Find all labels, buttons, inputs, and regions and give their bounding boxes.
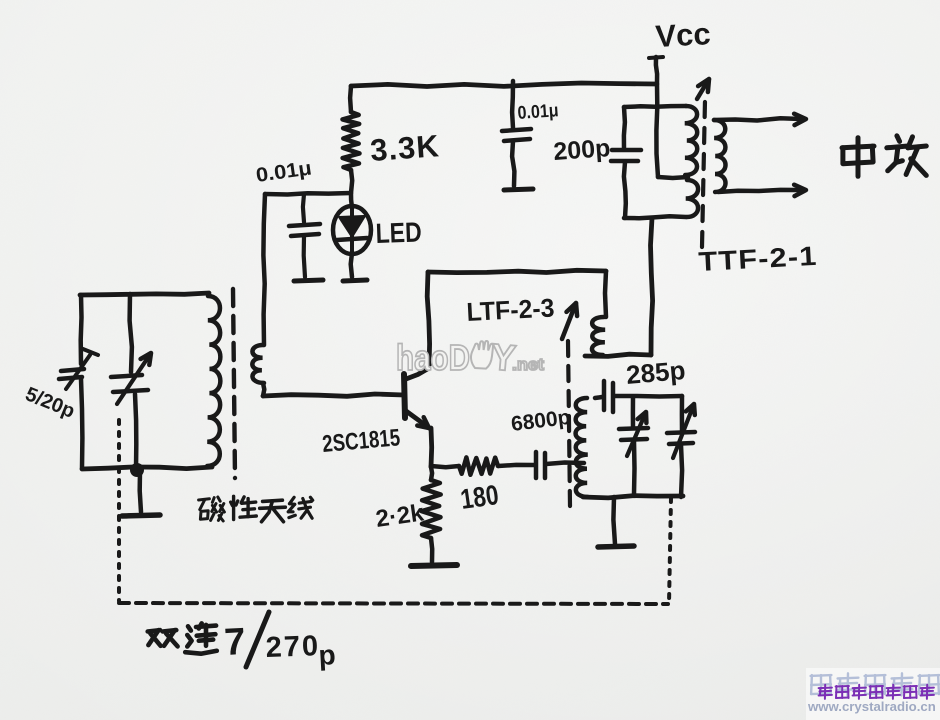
capacitor 0.01u decoupling bbox=[502, 81, 533, 190]
svg-text:TTF-2-1: TTF-2-1 bbox=[698, 241, 818, 277]
ground oscillator bbox=[598, 497, 634, 547]
transistor Q1 2SC1815 bbox=[404, 272, 432, 467]
capacitor series osc bbox=[595, 381, 682, 412]
svg-text:.net: .net bbox=[512, 355, 544, 374]
resistor 2.2k bbox=[422, 467, 441, 562]
watermark crystalradio bbox=[806, 668, 940, 720]
variable capacitor tuning main bbox=[111, 294, 151, 470]
wire tank bottom bbox=[82, 467, 212, 469]
inductor antenna secondary bbox=[252, 194, 265, 396]
node tank junction bbox=[130, 463, 144, 477]
label 200p value bbox=[552, 134, 611, 166]
label LED bbox=[375, 216, 422, 249]
Vcc power label bbox=[655, 16, 712, 54]
label 0.01u left bbox=[255, 157, 314, 187]
inductor antenna coil bbox=[207, 296, 220, 466]
svg-text:LED: LED bbox=[375, 216, 422, 249]
inductor TTF-2-1 secondary bbox=[714, 120, 726, 192]
wire output bottom arrow bbox=[718, 185, 806, 196]
label 5/20p bbox=[22, 383, 78, 423]
svg-text:haoD: haoD bbox=[396, 337, 470, 378]
ground tank bbox=[122, 471, 160, 516]
label 180 bbox=[459, 479, 501, 515]
Vcc supply wire bbox=[649, 57, 663, 177]
svg-text:LTF-2-3: LTF-2-3 bbox=[466, 292, 555, 327]
capacitor 0.01u input bbox=[289, 194, 323, 281]
resistor R 3.3K bbox=[343, 86, 360, 193]
gang link left dotted bbox=[117, 420, 121, 601]
svg-text:p: p bbox=[318, 639, 337, 671]
wire osc tank right bbox=[680, 396, 685, 432]
label LTF-2-3 bbox=[466, 292, 555, 327]
wire osc tank bottom bbox=[583, 496, 683, 498]
wire top rail bbox=[351, 83, 656, 87]
wire TTF bottom to LTF bbox=[585, 218, 653, 356]
variable capacitor osc main bbox=[667, 404, 695, 497]
wire LED branch top bbox=[265, 193, 351, 195]
svg-text:7: 7 bbox=[223, 621, 246, 664]
antenna ferrite core dashed bbox=[233, 289, 235, 478]
label 285p bbox=[625, 355, 687, 390]
inductor TTF-2-1 primary bbox=[658, 106, 698, 217]
capacitor 6800p bbox=[536, 452, 584, 478]
label 2SC1815 bbox=[321, 424, 401, 458]
variable capacitor osc trim bbox=[619, 397, 648, 494]
wire base bbox=[263, 394, 404, 396]
resistor 180 emitter bbox=[431, 457, 534, 474]
label 0.01u top bbox=[517, 99, 559, 123]
LTF-2-3 outline bbox=[428, 270, 606, 317]
svg-text:0.01μ: 0.01μ bbox=[517, 99, 559, 123]
LTF-2-3 tuning core dashed bbox=[562, 303, 577, 506]
svg-text:200p: 200p bbox=[552, 134, 611, 166]
label dual gang 双连 7/270p bbox=[148, 612, 337, 671]
wire tank top bbox=[80, 293, 209, 295]
gang link bottom dashed bbox=[119, 603, 668, 604]
ground emitter bbox=[411, 565, 457, 566]
label 6800p bbox=[510, 406, 572, 436]
svg-text:Vcc: Vcc bbox=[655, 16, 712, 54]
capacitor 200p tank bbox=[611, 106, 686, 218]
svg-text:285p: 285p bbox=[625, 355, 687, 390]
LED indicator bbox=[333, 194, 371, 281]
label TTF-2-1 bbox=[698, 241, 818, 277]
TTF-2-1 tuning core dashed bbox=[697, 79, 709, 247]
gang link right dotted bbox=[669, 498, 671, 604]
inductor LTF-2-3 secondary bbox=[592, 317, 605, 355]
wire tank left bbox=[78, 295, 83, 364]
wire output top arrow bbox=[714, 114, 806, 125]
trimmer capacitor 5/20p bbox=[59, 349, 98, 468]
label IF out 中放 bbox=[842, 136, 926, 177]
svg-text:www.crystalradio.cn: www.crystalradio.cn bbox=[807, 699, 936, 714]
watermark haoDIY bbox=[396, 336, 544, 379]
inductor oscillator coil bbox=[576, 398, 588, 497]
svg-text:270: 270 bbox=[265, 630, 320, 664]
svg-text:180: 180 bbox=[459, 479, 501, 515]
label 2.2k bbox=[374, 499, 426, 533]
label 3.3K value bbox=[369, 128, 441, 168]
label magnetic antenna 磁性天线 bbox=[199, 496, 313, 521]
svg-text:3.3K: 3.3K bbox=[369, 128, 441, 168]
